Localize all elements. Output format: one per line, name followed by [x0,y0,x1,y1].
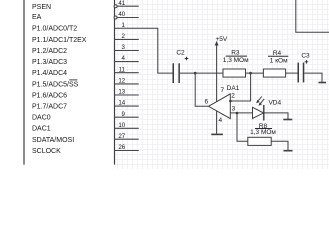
svg-text:P1.2/ADC2: P1.2/ADC2 [32,48,67,55]
svg-text:27: 27 [118,133,125,140]
svg-text:DAC1: DAC1 [32,126,51,133]
svg-text:13: 13 [118,89,125,96]
svg-text:6: 6 [204,98,208,105]
svg-text:11: 11 [119,66,126,73]
svg-text:1,3 МОм: 1,3 МОм [250,129,276,136]
svg-text:4: 4 [121,55,125,62]
svg-text:+5V: +5V [216,36,228,43]
svg-text:DAC0: DAC0 [32,115,51,122]
svg-text:P1.5/ADC5/SS: P1.5/ADC5/SS [32,81,79,88]
svg-text:2: 2 [231,93,235,100]
svg-text:P1.7/ADC7: P1.7/ADC7 [32,104,67,111]
svg-text:EA: EA [32,14,42,21]
svg-text:41: 41 [118,0,125,7]
svg-text:14: 14 [118,100,125,107]
svg-text:40: 40 [118,11,125,18]
svg-text:P1.3/ADC3: P1.3/ADC3 [32,59,67,66]
svg-text:26: 26 [118,144,125,151]
svg-text:P1.4/ADC4: P1.4/ADC4 [32,70,67,77]
svg-text:10: 10 [118,122,125,129]
svg-text:P1.6/ADC6: P1.6/ADC6 [32,92,67,99]
svg-text:7: 7 [220,87,224,94]
svg-text:3: 3 [121,44,125,51]
svg-text:4: 4 [218,117,222,124]
svg-text:DA1: DA1 [227,85,240,92]
svg-text:9: 9 [121,111,125,118]
svg-text:R4: R4 [273,50,282,57]
svg-text:C3: C3 [301,53,310,60]
svg-text:VD4: VD4 [268,100,281,107]
svg-text:R3: R3 [231,49,240,56]
svg-text:2: 2 [121,33,125,40]
svg-text:12: 12 [118,78,125,85]
svg-text:PSEN: PSEN [32,4,51,11]
svg-text:3: 3 [232,105,236,112]
svg-text:SDATA/MOSI: SDATA/MOSI [32,137,74,144]
svg-text:P1.0/ADC0/T2: P1.0/ADC0/T2 [32,26,77,33]
svg-text:1 кОм: 1 кОм [270,58,288,65]
svg-text:P1.1/ADC1/T2EX: P1.1/ADC1/T2EX [32,37,87,44]
svg-text:1,3 МОм: 1,3 МОм [223,57,249,64]
svg-text:C2: C2 [176,50,185,57]
svg-text:SCLOCK: SCLOCK [32,148,61,155]
